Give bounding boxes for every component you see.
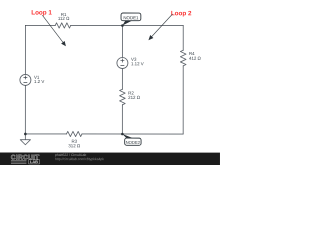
wire left vertical upper [24, 25, 26, 74]
resistor R1 [55, 23, 71, 28]
footer watermark bar [0, 153, 220, 166]
svg-text:1.2 V: 1.2 V [34, 79, 44, 84]
loop 2 arrow line [151, 14, 172, 37]
svg-text:NODE2: NODE2 [126, 140, 141, 145]
svg-text:112 Ω: 112 Ω [58, 16, 70, 21]
wire bottom left to R3 [25, 133, 66, 135]
wire top from left corner to R1 [25, 24, 55, 26]
wire middle vertical upper [121, 26, 123, 58]
svg-text:1.12 V: 1.12 V [131, 61, 144, 66]
junction dot top middle [121, 24, 124, 27]
junction dot bottom left [24, 133, 27, 136]
svg-text:LAB: LAB [30, 159, 38, 164]
node NODE1 box [121, 13, 141, 21]
resistor R3 [66, 131, 82, 136]
footer logo stripes [11, 160, 26, 162]
wire left vertical lower [24, 85, 26, 134]
loop 1 arrow line [42, 15, 64, 43]
svg-text:312 Ω: 312 Ω [68, 143, 81, 148]
ground stub [24, 134, 26, 140]
footer logo LAB [29, 160, 40, 164]
wire right vertical upper [182, 26, 184, 51]
wire top from R1 to right corner [71, 24, 183, 26]
wire right below R4 [182, 66, 184, 134]
node NODE2 box [125, 138, 141, 145]
loop 2 arrowhead [148, 35, 153, 40]
voltage source V1 [20, 74, 31, 85]
svg-text:NODE1: NODE1 [123, 15, 139, 20]
svg-text:Loop 2: Loop 2 [171, 10, 192, 17]
wire middle between V3 and R2 [121, 69, 123, 90]
ground triangle [20, 140, 30, 145]
loop 1 arrowhead [61, 41, 66, 46]
svg-text:412 Ω: 412 Ω [189, 56, 202, 61]
resistor R2 [120, 89, 126, 105]
junction dot bottom middle [121, 133, 124, 136]
resistor R4 [180, 50, 186, 66]
svg-text:http://circuitlab.com/c8typkka: http://circuitlab.com/c8typkka4pk [55, 157, 104, 161]
voltage source V3 [117, 58, 128, 69]
svg-text:212 Ω: 212 Ω [128, 95, 141, 100]
node NODE1 callout tail [122, 21, 131, 26]
wire bottom from R3 to right corner [82, 133, 183, 135]
svg-text:Loop 1: Loop 1 [31, 9, 52, 16]
node NODE2 callout tail [122, 134, 133, 138]
wire middle below R2 [121, 105, 123, 134]
